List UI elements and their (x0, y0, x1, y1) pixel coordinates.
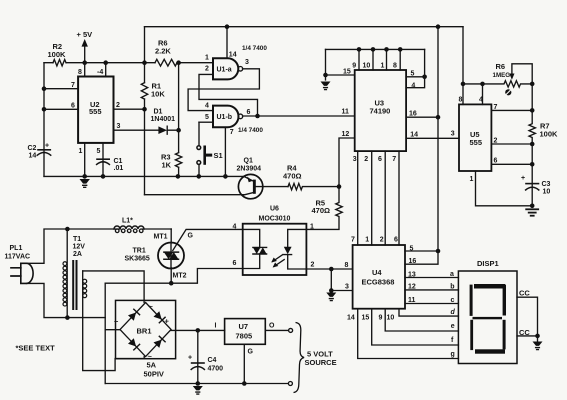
wire secondary bottom to bridge AC bottom (83, 271, 145, 371)
label MT2 (173, 273, 187, 280)
svg-text:R6: R6 (496, 62, 506, 71)
pin 4 U6 label (233, 223, 237, 230)
pin 8 U2 (78, 63, 85, 77)
svg-text:11: 11 (342, 108, 350, 115)
svg-text:2: 2 (364, 156, 368, 163)
potentiometer R6 1MEG (483, 62, 535, 87)
svg-text:2N3904: 2N3904 (237, 165, 262, 172)
svg-text:3: 3 (353, 156, 357, 163)
IC U3 74190 counter (355, 70, 406, 151)
segment lower-right (503, 320, 506, 350)
pin 15 U3 wire (323, 49, 355, 80)
transformer T1 primary (63, 229, 85, 318)
svg-text:555: 555 (89, 107, 102, 116)
pin 2 U2 wire (114, 102, 145, 109)
pin 14 U3 wire to U5 pin 3 (406, 131, 459, 139)
svg-text:TR1: TR1 (133, 248, 146, 255)
wire D1/R3 branch vertical (176, 60, 181, 176)
diode D1 1N4001 (151, 109, 179, 135)
IC U5 555 timer (459, 104, 491, 171)
resistor R1 (141, 82, 165, 100)
node U2 pin4 junction (103, 60, 108, 65)
svg-text:5: 5 (411, 71, 415, 78)
svg-text:8: 8 (459, 97, 463, 104)
svg-text:+: + (45, 143, 49, 150)
svg-text:2A: 2A (73, 251, 82, 258)
wire gate lead G to U6 pin 4 (173, 229, 243, 250)
svg-text:PL1: PL1 (10, 245, 23, 252)
svg-text:12: 12 (408, 284, 416, 291)
svg-text:MOC3010: MOC3010 (259, 216, 291, 223)
svg-text:555: 555 (470, 138, 483, 147)
svg-text:.01: .01 (114, 165, 124, 172)
svg-text:1: 1 (365, 237, 369, 244)
pin 3 U1-a output wire (to U1-b pin 4) (188, 59, 259, 111)
svg-text:117VAC: 117VAC (5, 253, 31, 260)
svg-text:U1-a: U1-a (217, 66, 232, 73)
svg-text:b: b (450, 284, 454, 291)
photo-triac inside U6 (243, 229, 267, 268)
pin 4 U1-b label (205, 102, 209, 109)
pin 6 U5 wire (491, 158, 534, 167)
svg-text:4: 4 (479, 97, 483, 104)
pin 11 U3 label (342, 108, 350, 115)
pin 16 U4 wire (405, 251, 438, 265)
pin 11 U4 wire (segment c) (405, 297, 458, 304)
pin 3 U4 wire to ground (329, 269, 353, 293)
pin 5 U1-b wire (199, 114, 213, 122)
pin 5 U4 wire (405, 246, 438, 253)
ground rail (logic section) (44, 174, 244, 179)
svg-text:DISP1: DISP1 (477, 259, 499, 268)
pin 7 U1-b stub (225, 127, 233, 176)
svg-text:SOURCE: SOURCE (305, 358, 337, 367)
svg-text:2: 2 (494, 138, 498, 145)
svg-text:100K: 100K (540, 130, 559, 139)
svg-text:3: 3 (451, 131, 455, 138)
trimmer adjust symbol (505, 89, 511, 95)
svg-text:-4: -4 (97, 69, 103, 76)
ground symbol at U3 pin 15 (321, 82, 331, 90)
power +5V arrow (77, 30, 93, 65)
svg-text:D1: D1 (154, 109, 163, 116)
svg-text:I: I (215, 323, 217, 330)
svg-text:L1*: L1* (122, 218, 133, 225)
svg-text:10: 10 (387, 315, 395, 322)
svg-text:c: c (451, 297, 455, 304)
svg-text:d: d (451, 309, 456, 316)
pin 6 U1-b output wire to U3 pin 11 (243, 109, 355, 118)
svg-text:13: 13 (408, 271, 416, 278)
switch S1 pushbutton (197, 122, 223, 176)
svg-text:Q1: Q1 (244, 158, 253, 165)
pin 15 U4 wire (segment f) (362, 309, 459, 345)
svg-text:C1: C1 (114, 158, 123, 165)
svg-text:15: 15 (343, 69, 351, 76)
svg-text:7: 7 (230, 129, 234, 136)
svg-text:100K: 100K (48, 50, 67, 59)
svg-text:10: 10 (543, 189, 551, 196)
svg-text:470Ω: 470Ω (283, 171, 302, 180)
svg-text:470Ω: 470Ω (312, 206, 331, 215)
svg-text:6: 6 (494, 158, 498, 165)
svg-text:C3: C3 (542, 181, 551, 188)
svg-text:2: 2 (205, 66, 209, 73)
pin 1 U6 label (310, 223, 314, 230)
plug PL1 117VAC (5, 245, 34, 283)
regulator U7 7805 (225, 319, 266, 345)
wire +5V distribution rail (44, 62, 213, 64)
resistor R7 100K (529, 84, 558, 144)
svg-text:1: 1 (381, 62, 385, 69)
svg-text:10K: 10K (151, 90, 165, 99)
svg-text:−: − (114, 317, 119, 326)
pin 13 U4 wire (segment a) (405, 271, 458, 278)
pin 2 U3 column to U4 pin 1 (364, 151, 371, 245)
pin 6 U2 wire (44, 103, 78, 110)
wire MT1 lead (170, 229, 172, 243)
transistor Q1 2N3904 (237, 158, 263, 199)
pin 12 U3 wire (to R4/R5 node) (339, 131, 355, 187)
wire MT2 lead (169, 268, 174, 286)
pin 9 U4 wire (segment e) (379, 309, 459, 331)
segment lower-left (470, 320, 473, 350)
svg-text:50PIV: 50PIV (144, 370, 164, 379)
svg-text:14: 14 (347, 315, 355, 322)
svg-text:2: 2 (380, 237, 384, 244)
segment upper-right (503, 285, 506, 316)
pin 4 U5 stub (463, 82, 485, 105)
svg-text:C4: C4 (208, 357, 217, 364)
svg-text:g: g (451, 351, 455, 358)
diode BR1 lower-left (128, 338, 140, 350)
pin 12 U4 wire (segment b) (405, 284, 458, 291)
svg-text:5: 5 (205, 114, 209, 121)
svg-text:6: 6 (394, 237, 398, 244)
svg-text:3: 3 (245, 59, 249, 66)
svg-text:G: G (248, 349, 254, 356)
pin 6 U6 label (233, 260, 237, 267)
svg-text:16: 16 (409, 258, 417, 265)
svg-text:T1: T1 (73, 236, 81, 243)
light arrows inside U6 (271, 255, 284, 268)
diode BR1 upper-right (154, 311, 166, 323)
svg-text:6: 6 (233, 260, 237, 267)
pin 9 U3 (352, 47, 361, 70)
svg-text:CC: CC (519, 289, 530, 298)
capacitor C3 (521, 144, 551, 206)
resistor R5 470 ohm (306, 187, 342, 230)
wire Q1 emitter to R1 branch (145, 194, 245, 196)
gate U1-b 7400 NAND (213, 106, 243, 128)
pin 1 U5 stub to ground (470, 171, 535, 208)
pin 10 U4 wire (segment d) (387, 309, 459, 322)
svg-text:3: 3 (345, 284, 349, 291)
svg-text:U4: U4 (372, 268, 382, 277)
segment bottom bar (475, 349, 505, 353)
wire Q1 base to R4 (256, 186, 288, 188)
note see text (16, 344, 56, 353)
display DISP1 7-segment (458, 259, 517, 363)
pin 14 U4 wire (segment g) (347, 309, 458, 359)
optocoupler U6 MOC3010 (243, 206, 307, 276)
svg-text:1MEG: 1MEG (493, 72, 511, 79)
pin 14 U1-a stub (225, 24, 237, 58)
svg-text:1/4 7400: 1/4 7400 (238, 127, 263, 134)
resistor R4 470 ohm (283, 163, 341, 190)
svg-text:74190: 74190 (370, 107, 391, 116)
pin 3 U2 wire (114, 123, 159, 130)
svg-text:9: 9 (379, 315, 383, 322)
svg-text:CC: CC (519, 328, 530, 337)
wire U3 top ground bus (326, 48, 425, 50)
pin 2 U5 wire (491, 138, 534, 147)
pin 8 U3 (393, 47, 403, 70)
svg-text:7: 7 (71, 82, 75, 89)
terminal +5V output (289, 328, 293, 332)
pin 2 U1-a wire (feedback from U1-b out) (199, 66, 258, 116)
svg-text:U7: U7 (239, 322, 249, 331)
ground symbol below U2 (80, 179, 90, 187)
svg-text:6: 6 (247, 109, 251, 116)
pin 10 U3 (363, 47, 376, 70)
capacitor C4 (188, 330, 223, 385)
svg-text:SK3665: SK3665 (125, 256, 150, 263)
label MT1 (154, 233, 168, 240)
svg-text:BR1: BR1 (137, 327, 152, 336)
svg-text:1: 1 (310, 223, 314, 230)
pin 8 U5 stub from top rail (459, 27, 466, 105)
capacitor C2 (28, 143, 51, 160)
svg-text:1: 1 (205, 55, 209, 62)
LED inside U6 (284, 229, 307, 269)
svg-text:4: 4 (205, 102, 209, 109)
capacitor C1 (97, 158, 124, 172)
svg-text:14: 14 (29, 153, 37, 160)
svg-text:5: 5 (410, 246, 414, 253)
svg-text:7: 7 (392, 156, 396, 163)
svg-text:C2: C2 (28, 145, 37, 152)
transformer T1 secondary (83, 279, 87, 297)
svg-text:+: + (188, 355, 192, 362)
svg-text:3: 3 (117, 123, 121, 130)
svg-text:1K: 1K (162, 161, 172, 170)
pin 6 U3 column to U4 pin 2 (378, 151, 385, 245)
svg-text:7: 7 (351, 237, 355, 244)
wire U7 ground stub (242, 344, 254, 386)
svg-text:MT2: MT2 (173, 273, 187, 280)
segment upper-left (470, 285, 473, 316)
wire bridge plus output to U7 (171, 323, 225, 333)
IC U4 ECG8368 decoder/driver (353, 245, 405, 309)
pin 5 U3 wire (406, 71, 427, 79)
svg-text:8: 8 (393, 62, 397, 69)
svg-text:8: 8 (78, 69, 82, 76)
IC U2 555 timer (78, 77, 113, 143)
transformer T1 core (72, 260, 77, 310)
svg-text:5: 5 (97, 148, 101, 155)
svg-text:11: 11 (408, 297, 416, 304)
wire DISP1 common cathode 1 (517, 289, 538, 336)
svg-text:16: 16 (409, 111, 417, 118)
pin 5 U2 stub (97, 143, 104, 177)
svg-text:1: 1 (79, 148, 83, 155)
svg-text:O: O (269, 323, 275, 330)
segment top bar (474, 284, 505, 289)
wire secondary top to bridge AC top (83, 271, 144, 303)
svg-text:1: 1 (470, 176, 474, 183)
label 1/4 7400 (upper) (242, 45, 267, 52)
wire neutral/ground drop (MT2 line to bottom rail) (104, 283, 106, 383)
svg-text:MT1: MT1 (154, 233, 168, 240)
svg-text:1/4 7400: 1/4 7400 (242, 45, 267, 52)
pin 4 U2 (97, 63, 106, 77)
resistor R3 (161, 153, 182, 170)
inductor L1 (114, 218, 144, 233)
svg-text:S1: S1 (214, 151, 223, 160)
svg-text:6: 6 (71, 103, 75, 110)
svg-text:14: 14 (229, 52, 237, 59)
pin 1 U3 (381, 47, 389, 70)
svg-text:+ 5V: + 5V (77, 30, 93, 39)
triac TR1 SK3665 (125, 243, 185, 269)
svg-text:10: 10 (363, 62, 371, 69)
pin 7 U3 column to U4 pin 6 (392, 151, 399, 245)
pin 7 U5 wire (491, 104, 534, 113)
wire MT2 net (to U6 pin6 and neutral) (105, 269, 243, 284)
svg-text:12V: 12V (73, 244, 86, 251)
wire bridge minus to ground drop (105, 329, 120, 331)
wire bottom ground rail (105, 383, 288, 385)
svg-text:1N4001: 1N4001 (151, 116, 176, 123)
pin 1 U1-a label (205, 55, 209, 62)
wire left vertical (C2 branch) (42, 63, 47, 177)
brace 5 volt source (293, 323, 336, 393)
svg-text:4700: 4700 (208, 366, 224, 373)
pin 4 U3 wire (406, 49, 425, 89)
segment middle bar (473, 317, 503, 319)
svg-text:6: 6 (378, 156, 382, 163)
pin 16 U3 wire (406, 111, 440, 120)
bridge rectifier BR1 (114, 300, 176, 378)
svg-text:8: 8 (345, 262, 349, 269)
wire Vcc vertical (top rail to U3 pin16 / U4 pins 5,16) (436, 24, 441, 253)
wire DISP1 common cathode 2 (517, 328, 540, 341)
svg-text:2: 2 (116, 102, 120, 109)
svg-text:9: 9 (352, 62, 356, 69)
svg-text:2: 2 (311, 262, 315, 269)
wire AC hot line (plug to L1 to MT1) (27, 227, 172, 264)
wire AC neutral line (plug to transformer bottom) (27, 283, 106, 320)
svg-text:4: 4 (411, 82, 415, 89)
svg-text:a: a (450, 271, 454, 278)
svg-text:ECG8368: ECG8368 (362, 278, 395, 287)
ground symbol below C3 (526, 209, 538, 215)
gate U1-a 7400 NAND (213, 58, 243, 79)
svg-text:+: + (521, 175, 525, 182)
svg-text:*SEE TEXT: *SEE TEXT (16, 344, 56, 353)
svg-text:7: 7 (494, 104, 498, 111)
wire top +5V rail (145, 26, 464, 28)
diode BR1 lower-right (154, 336, 166, 348)
svg-text:14: 14 (410, 132, 418, 139)
pin 8 U4 wire from U6 pin 2 (306, 262, 352, 271)
resistor R2 (48, 42, 67, 66)
pin 7 U2 wire (44, 82, 78, 89)
svg-text:U1-b: U1-b (217, 114, 233, 121)
svg-text:12: 12 (342, 131, 350, 138)
ground symbol below DISP1 (533, 342, 543, 350)
resistor R6 2.2K (155, 39, 177, 67)
svg-text:7805: 7805 (236, 332, 253, 341)
ground symbol below C4 (193, 386, 203, 394)
pin 1 U2 stub (79, 143, 85, 177)
ground symbol at U4 pin 3 (326, 293, 336, 301)
svg-text:5A: 5A (147, 361, 157, 370)
svg-text:e: e (451, 323, 455, 330)
terminal ground output (288, 382, 292, 386)
pin 2 U6 label (311, 262, 315, 269)
wire U7 output to terminal (265, 323, 288, 331)
label 1/4 7400 (lower) (238, 127, 263, 134)
wire R1 branch vertical (142, 27, 147, 195)
diode BR1 upper-left (128, 309, 140, 321)
svg-text:15: 15 (362, 315, 370, 322)
svg-text:2.2K: 2.2K (155, 47, 171, 56)
pin 3 U3 column to U4 pin 7 (351, 151, 358, 245)
svg-text:U6: U6 (270, 206, 279, 213)
svg-text:G: G (188, 233, 194, 240)
svg-text:~: ~ (149, 302, 154, 311)
